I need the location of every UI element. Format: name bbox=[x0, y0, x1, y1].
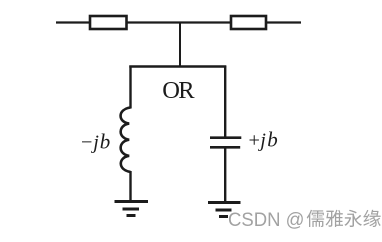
svg-text:OR: OR bbox=[162, 77, 195, 104]
svg-text:−jb: −jb bbox=[81, 130, 110, 154]
svg-text:CSDN @: CSDN @ bbox=[228, 209, 305, 231]
svg-text:+jb: +jb bbox=[249, 128, 278, 152]
